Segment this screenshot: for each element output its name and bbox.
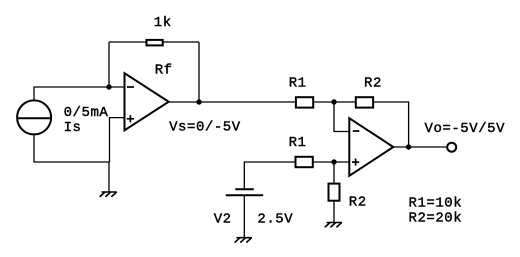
wire op-amp U2 inverting input [334, 102, 349, 132]
ground G1 [100, 192, 116, 196]
op-amp U1 [125, 73, 169, 130]
wire battery positive to R1 bottom [244, 162, 295, 189]
output terminal Vo [447, 143, 456, 152]
svg-text:0/5mA: 0/5mA [64, 105, 109, 121]
node junction dot non-inverting U2 [331, 159, 336, 164]
wire R2 vertical to ground G3 [333, 202, 335, 223]
wire op-amp U1 output rail [169, 101, 295, 103]
ground G2 [235, 238, 251, 242]
svg-text:R1: R1 [289, 75, 307, 91]
node junction dot inverting input U1 [106, 84, 111, 89]
node junction dot U1 output [196, 99, 201, 104]
wire node to R2 vertical [333, 162, 335, 183]
resistor R2 top [356, 97, 373, 107]
wire feedback top left [109, 41, 146, 43]
svg-text:Is: Is [64, 120, 82, 136]
resistor Rf 1k [147, 40, 163, 46]
resistor R1 bottom [296, 157, 313, 167]
wire feedback left vertical [108, 42, 110, 87]
svg-text:V2: V2 [214, 212, 232, 228]
svg-text:2.5V: 2.5V [257, 212, 293, 228]
svg-text:R2=20k: R2=20k [409, 211, 463, 227]
svg-text:R1=10k: R1=10k [409, 196, 463, 212]
current source Is [17, 100, 51, 134]
svg-text:R1: R1 [289, 135, 307, 151]
svg-text:1k: 1k [154, 15, 172, 31]
wire feedback top right [164, 41, 200, 43]
wire op-amp U1 non-inverting input [110, 118, 124, 162]
wire current source bottom rail [34, 135, 109, 162]
wire to ground G1 [108, 162, 110, 192]
op-amp U2 [349, 118, 393, 176]
resistor R1 top [296, 97, 313, 107]
svg-text:Vo=-5V/5V: Vo=-5V/5V [425, 121, 506, 137]
wire R1 bottom to non-inverting input U2 [314, 161, 350, 163]
wire R1 to R2 top rail [314, 101, 356, 103]
node junction dot R1/R2 top [331, 99, 336, 104]
ground G3 [325, 223, 341, 227]
wire R2 to feedback corner [374, 102, 409, 147]
wire current source top to op-amp inverting input [34, 87, 124, 100]
svg-text:R2: R2 [349, 195, 367, 211]
svg-text:R2: R2 [364, 75, 382, 91]
wire battery negative to ground G2 [243, 195, 245, 238]
wire feedback right vertical [198, 42, 200, 102]
wire op-amp U2 output [393, 146, 446, 148]
svg-text:Rf: Rf [155, 62, 173, 78]
node junction dot U2 output [406, 144, 411, 149]
resistor R2 vertical [329, 184, 340, 201]
battery V2 [226, 189, 263, 195]
svg-text:Vs=0/-5V: Vs=0/-5V [169, 120, 241, 136]
